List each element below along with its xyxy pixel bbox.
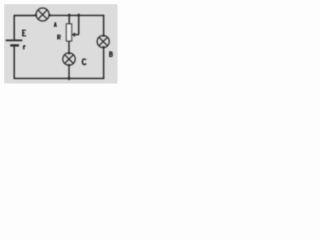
label B [110,51,112,57]
battery E long plate [6,39,23,41]
lamp C [63,53,75,65]
lamp A [36,8,49,21]
lamp B [97,35,109,47]
slider arrowhead [72,32,75,37]
wire left lower [13,45,15,78]
wire top-right segment [49,14,104,16]
wire left upper [13,15,15,41]
label A [54,22,56,27]
label C [82,59,86,65]
label R [58,35,60,40]
node junction dot left (rheostat tap) [67,13,71,17]
wire slider horizontal [75,34,79,36]
wire right lower [103,47,105,79]
wire rheostat bottom lead [68,41,70,53]
label E [22,30,26,37]
lamp C bottom terminal dot [68,64,70,66]
wire right upper [103,15,105,36]
wire top-left segment [14,15,36,17]
label r [23,46,25,50]
wire bottom [14,77,105,79]
battery E short plate [10,44,19,46]
panel background [0,0,123,87]
resistor R (rheostat body) [66,24,71,41]
wire rheostat top lead [68,15,70,23]
node junction dot right (slider tap) [77,13,81,17]
wire lamp C bottom lead [68,65,70,78]
lamp C top terminal dot [68,52,70,54]
lamp A right terminal dot [48,14,51,17]
lamp B bottom terminal dot [103,46,105,48]
wire slider vertical [78,15,80,34]
node junction dot bottom [67,76,71,80]
lamp B top terminal dot [103,35,105,37]
lamp A left terminal dot [34,14,37,17]
